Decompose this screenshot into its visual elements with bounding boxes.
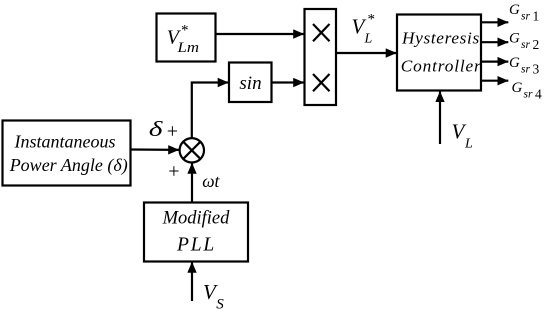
- label Gsr4: [512, 80, 543, 101]
- svg-text:Modified: Modified: [162, 208, 231, 228]
- svg-text:Hysteresis: Hysteresis: [401, 29, 480, 48]
- label VL: [452, 120, 474, 152]
- summing junction: [180, 138, 204, 162]
- label VL*: [352, 12, 376, 47]
- wire VL input: [439, 91, 441, 144]
- block Modified PLL: [144, 203, 248, 262]
- label V*Lm: [167, 22, 199, 55]
- svg-text:+: +: [168, 160, 179, 182]
- wire output Gsr2: [481, 41, 508, 43]
- svg-text:Controller: Controller: [401, 56, 482, 75]
- svg-text:PLL: PLL: [176, 234, 216, 255]
- svg-text:sr: sr: [521, 10, 530, 22]
- label Modified PLL: [162, 208, 231, 255]
- svg-text:δ: δ: [149, 117, 164, 141]
- svg-text:*: *: [181, 22, 189, 38]
- svg-text:Lm: Lm: [176, 40, 199, 56]
- wire multiplier to hysteresis: [336, 52, 397, 54]
- label Gsr1: [509, 2, 539, 23]
- svg-text:sr: sr: [524, 89, 533, 101]
- block Hysteresis Controller: [397, 15, 481, 91]
- multiply sign bottom: [313, 74, 330, 91]
- svg-text:sin: sin: [239, 73, 261, 94]
- svg-text:Instantaneous: Instantaneous: [14, 131, 116, 151]
- svg-text:ωt: ωt: [202, 171, 220, 191]
- svg-text:G: G: [509, 2, 520, 18]
- svg-text:sr: sr: [521, 64, 530, 76]
- svg-text:G: G: [512, 80, 523, 96]
- block Instantaneous Power Angle: [3, 121, 131, 186]
- wire modified PLL to summing junction: [191, 163, 193, 202]
- block sin: [229, 63, 272, 103]
- wire output Gsr4: [481, 80, 508, 82]
- wire VS input: [191, 262, 193, 301]
- svg-text:S: S: [216, 297, 224, 313]
- block V*Lm: [157, 14, 216, 62]
- label Hysteresis Controller: [401, 29, 482, 76]
- multiply sign top: [313, 24, 330, 41]
- svg-text:4: 4: [535, 86, 542, 101]
- label Gsr3: [509, 55, 540, 76]
- svg-text:1: 1: [533, 8, 540, 23]
- svg-text:*: *: [368, 12, 376, 28]
- svg-text:3: 3: [533, 61, 540, 76]
- svg-text:Power Angle (δ): Power Angle (δ): [9, 155, 128, 176]
- svg-text:2: 2: [533, 37, 540, 52]
- wire output Gsr1: [481, 21, 508, 23]
- svg-text:G: G: [509, 31, 520, 47]
- label Gsr2: [509, 31, 539, 52]
- svg-text:L: L: [364, 32, 373, 47]
- wire V*Lm to multiplier: [216, 33, 305, 35]
- svg-text:L: L: [464, 137, 473, 152]
- svg-text:G: G: [509, 55, 520, 71]
- label Instantaneous Power Angle (d): [9, 131, 128, 176]
- wire summing junction to sin: [192, 83, 229, 139]
- block multiplier: [305, 9, 337, 105]
- wire sin to multiplier: [272, 81, 305, 83]
- label VS: [203, 280, 224, 313]
- wire output Gsr3: [481, 60, 508, 62]
- svg-text:+: +: [167, 121, 178, 143]
- svg-text:sr: sr: [521, 39, 530, 51]
- wire instantaneous box to summing junction: [131, 148, 180, 151]
